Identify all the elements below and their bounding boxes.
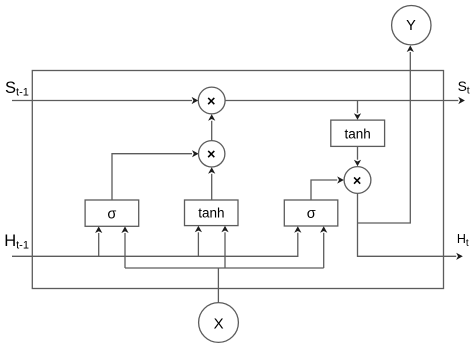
LSTM cell outer box	[32, 71, 443, 289]
tanh gate U2	[185, 200, 239, 226]
wire S internal to S_t output	[225, 100, 458, 102]
svg-text:Ht-1: Ht-1	[4, 232, 29, 252]
wire S_t-1 input	[12, 100, 192, 102]
svg-text:tanh: tanh	[344, 126, 370, 141]
svg-text:σ: σ	[107, 207, 116, 223]
wire tanh U2 to multiplier N2	[211, 174, 213, 200]
svg-text:St: St	[458, 79, 470, 97]
wire sigma U1 to multiplier N2	[112, 154, 192, 200]
output node Y	[392, 6, 431, 45]
wire multiplier N2 to multiplier N1	[211, 121, 213, 141]
wire H_t-1 tap to sigma U1	[98, 233, 100, 256]
svg-text:×: ×	[207, 94, 215, 110]
svg-text:×: ×	[207, 147, 215, 163]
multiplier N3	[344, 167, 371, 194]
svg-text:Ht: Ht	[457, 232, 469, 249]
svg-text:×: ×	[353, 174, 361, 190]
wire S line down to tanh U4	[357, 101, 359, 114]
tanh gate U4	[331, 120, 385, 146]
wire X tap to sigma U3	[323, 233, 325, 268]
sigma gate U1	[85, 200, 139, 226]
multiplier N1	[198, 87, 225, 114]
wire X distribution line	[125, 267, 324, 269]
input node X	[199, 303, 239, 343]
wire multiplier N3 down to H_t output	[358, 194, 457, 257]
wire branch to Y output	[358, 52, 411, 223]
wire sigma U3 up to multiplier N3	[311, 180, 337, 200]
svg-text:Y: Y	[406, 18, 416, 34]
sigma gate U3	[284, 200, 338, 226]
wire tanh U4 to multiplier N3	[357, 147, 359, 160]
wire H_t-1 tap to tanh U2	[197, 232, 199, 256]
wire H_t-1 input to sigma U3	[12, 233, 298, 256]
wire X tap to tanh U2	[224, 232, 226, 268]
svg-text:St-1: St-1	[5, 79, 29, 99]
svg-text:σ: σ	[307, 206, 316, 222]
svg-text:tanh: tanh	[198, 206, 224, 221]
wire X tap to sigma U1	[124, 233, 126, 268]
wire X circle up to X line	[217, 268, 219, 303]
multiplier N2	[199, 141, 225, 167]
svg-text:X: X	[214, 315, 224, 332]
